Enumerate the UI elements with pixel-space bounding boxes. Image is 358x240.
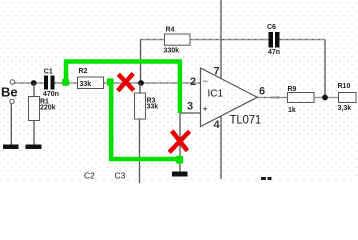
- svg-text:33k: 33k: [147, 104, 159, 111]
- svg-text:C1: C1: [44, 69, 53, 76]
- svg-text:7: 7: [214, 66, 220, 78]
- wire feedback vertical (R4 left leg): [140, 40, 142, 84]
- red cross X1 (deleted wire R2-feedback): [118, 74, 134, 91]
- svg-text:R10: R10: [338, 83, 351, 90]
- resistor R2: [78, 68, 104, 89]
- svg-text:3: 3: [187, 101, 193, 113]
- ground (pin 3 net): [172, 172, 188, 177]
- wire ground terminal down to ground: [10, 104, 12, 145]
- wire R2 to feedback node (crossed out): [104, 82, 141, 84]
- svg-text:6: 6: [259, 86, 265, 98]
- svg-text:−: −: [203, 76, 208, 86]
- svg-text:1k: 1k: [288, 107, 296, 114]
- ground (under R1): [26, 145, 42, 150]
- wire pin 4 to V- (bottom edge): [220, 116, 222, 179]
- capacitor C1: [43, 69, 59, 99]
- svg-text:4: 4: [214, 119, 221, 131]
- wire input terminal to C1: [15, 82, 45, 84]
- svg-text:330k: 330k: [164, 48, 180, 55]
- resistor R10: [338, 83, 357, 112]
- node output divider junction: [322, 95, 328, 101]
- wire C1 to R2: [55, 82, 78, 84]
- input terminal pad (signal in): [10, 80, 14, 84]
- wire output dark segment: [272, 97, 281, 99]
- wire R3 down to C3 (off image): [139, 119, 141, 183]
- resistor R3: [135, 93, 159, 119]
- resistor R4: [164, 27, 191, 55]
- svg-text:+: +: [203, 104, 208, 114]
- ground (under input terminal): [3, 145, 19, 150]
- svg-text:220k: 220k: [40, 105, 56, 112]
- node green junction 2 (R2 output): [107, 78, 114, 85]
- svg-text:R9: R9: [288, 86, 297, 93]
- wire R1 to ground: [33, 121, 35, 145]
- svg-text:2: 2: [190, 76, 196, 88]
- wire feedback node to op-amp pin 2: [141, 82, 201, 84]
- wire R4 to C6: [190, 39, 269, 41]
- capacitor C6: [267, 24, 280, 56]
- resistor R1: [29, 97, 56, 121]
- wire junction down to R1: [33, 83, 35, 97]
- svg-text:33k: 33k: [80, 81, 92, 88]
- wire pin 3 node down to ground (crossed out): [179, 113, 181, 172]
- wire feedback node down to R3: [139, 83, 141, 93]
- wire (green) right vertical to pin 3: [178, 62, 183, 114]
- wire op-amp output to R9: [258, 97, 288, 99]
- svg-text:C6: C6: [267, 24, 276, 31]
- svg-text:470n: 470n: [43, 91, 59, 98]
- svg-text:C2: C2: [84, 171, 95, 181]
- svg-text:47n: 47n: [268, 49, 280, 56]
- node feedback junction: [138, 80, 144, 86]
- red cross X2 (deleted wire pin3-ground): [169, 131, 189, 153]
- op-amp IC1 TL071: [201, 68, 262, 127]
- node green junction 1 (C1/R2): [62, 79, 69, 86]
- wire (green) node 2 down: [109, 83, 114, 159]
- node junction input/R1: [31, 80, 37, 86]
- wire (green) bottom horizontal: [109, 157, 180, 162]
- wire R9 to R10: [314, 97, 339, 99]
- wire (green) top horizontal: [64, 59, 182, 64]
- ground terminal pad: [10, 99, 14, 103]
- stray component marks at bottom edge: [261, 177, 272, 180]
- svg-text:R2: R2: [79, 68, 88, 75]
- wire pin 7 to V+ (top edge): [220, 0, 222, 79]
- node green junction 3 (ground net): [176, 156, 183, 164]
- wire (green) node 1 up: [64, 62, 69, 84]
- svg-text:R4: R4: [166, 27, 175, 34]
- wire C6 right then down to output junction: [280, 40, 326, 98]
- svg-text:3,3k: 3,3k: [338, 105, 352, 112]
- svg-text:IC1: IC1: [208, 89, 224, 100]
- svg-text:Be: Be: [1, 85, 18, 100]
- svg-text:C3: C3: [115, 171, 126, 181]
- wire pin 3 stub: [180, 112, 201, 114]
- wire feedback top row to R4: [141, 39, 165, 41]
- svg-text:TL071: TL071: [230, 115, 262, 127]
- resistor R9: [288, 86, 315, 114]
